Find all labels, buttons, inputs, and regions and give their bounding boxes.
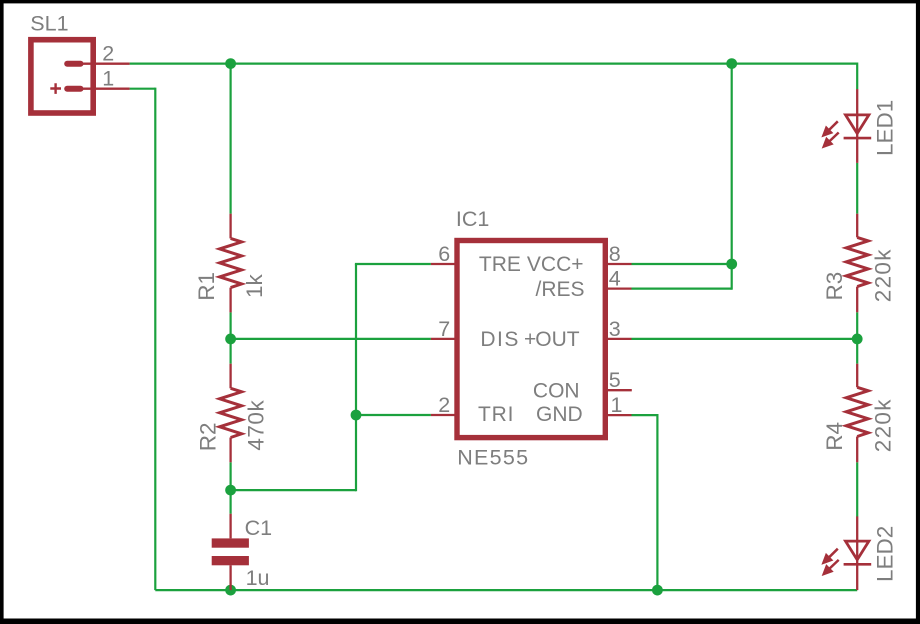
svg-text:NE555: NE555 xyxy=(457,445,529,469)
junction R2 C1 node xyxy=(225,485,236,496)
capacitor C1 leads xyxy=(229,514,231,590)
wire left rail down xyxy=(154,88,156,590)
svg-text:LED2: LED2 xyxy=(872,526,897,582)
svg-text:SL1: SL1 xyxy=(30,11,68,35)
IC1 pin 7 DIS stub xyxy=(431,338,456,340)
svg-text:2: 2 xyxy=(102,41,114,65)
capacitor C1 xyxy=(212,538,249,565)
svg-text:C1: C1 xyxy=(245,516,272,540)
IC1 pin 8 VCC stub xyxy=(606,263,632,265)
svg-text:6: 6 xyxy=(438,242,450,266)
connector SL1 body xyxy=(31,40,93,113)
IC1 pin 2 TRI stub xyxy=(431,414,456,416)
wire VCC pin8 net xyxy=(632,263,732,265)
wire SL1 pin1 to left rail xyxy=(130,88,156,90)
svg-text:OUT: OUT xyxy=(535,328,580,351)
wire right drop to LED1 xyxy=(856,63,858,90)
resistor R1 xyxy=(220,214,242,313)
svg-text:/RES: /RES xyxy=(535,278,584,301)
wire RES pin4 net xyxy=(632,288,732,290)
LED1 xyxy=(844,89,872,163)
wire DIS net xyxy=(231,338,431,340)
LED2 xyxy=(844,516,872,564)
wire GND pin1 net xyxy=(632,414,658,416)
LED1 emission arrows xyxy=(822,121,838,147)
svg-text:R3: R3 xyxy=(822,272,847,301)
op-amp IC1 box (NE555) xyxy=(457,241,605,438)
resistor R2 xyxy=(220,364,242,463)
wire VCC to R1 xyxy=(230,64,232,214)
svg-text:4: 4 xyxy=(609,267,621,291)
svg-text:1: 1 xyxy=(102,66,114,90)
svg-text:CON: CON xyxy=(533,379,580,402)
svg-text:7: 7 xyxy=(438,317,450,341)
junction pin8 pin4 xyxy=(726,259,737,270)
resistor R3 xyxy=(846,214,868,313)
wire TRE riser vertical xyxy=(355,264,357,491)
junction TRI riser xyxy=(351,410,362,421)
svg-text:1k: 1k xyxy=(242,273,267,298)
svg-text:470k: 470k xyxy=(244,400,269,451)
IC1 pin 4 RES stub xyxy=(606,287,632,289)
junction C1 bottom rail xyxy=(225,585,236,596)
wire R3 to junction xyxy=(856,312,858,339)
wire TRI to riser xyxy=(356,414,431,416)
junction OUT R3 R4 xyxy=(852,334,863,345)
svg-text:LED1: LED1 xyxy=(872,100,897,156)
connector SL1 pad pin2 xyxy=(67,61,80,67)
wire riser to TRE pin xyxy=(355,263,431,265)
IC1 pin 5 CON stub xyxy=(606,389,632,391)
wire GND drop xyxy=(656,414,658,590)
wire node across to TRE riser xyxy=(231,489,356,491)
svg-text:8: 8 xyxy=(609,242,621,266)
wire R2 to node junction xyxy=(230,462,232,490)
svg-text:1u: 1u xyxy=(246,566,270,590)
svg-text:R2: R2 xyxy=(195,422,220,451)
wire R1 to DIS junction xyxy=(230,312,232,339)
svg-text:220k: 220k xyxy=(871,398,896,452)
junction top rail R1 xyxy=(225,58,236,69)
svg-text:VCC+: VCC+ xyxy=(527,253,584,276)
svg-text:GND: GND xyxy=(536,403,583,426)
svg-text:R4: R4 xyxy=(822,422,847,451)
LED2 emission arrows xyxy=(822,549,838,575)
svg-text:3: 3 xyxy=(609,317,621,341)
wire bottom rail GND xyxy=(155,589,857,591)
wire pin8 riser to top rail xyxy=(731,64,733,264)
wire junction to C1 xyxy=(230,490,232,514)
junction R1 R2 DIS xyxy=(225,334,236,345)
svg-text:1: 1 xyxy=(611,393,623,417)
svg-text:220k: 220k xyxy=(871,248,896,302)
svg-text:R1: R1 xyxy=(194,272,219,301)
svg-text:TRI: TRI xyxy=(478,403,514,426)
wire junction to R4 xyxy=(856,339,858,364)
IC1 pin 1 GND stub xyxy=(606,414,632,416)
IC1 pin 3 OUT stub xyxy=(606,338,632,340)
wire LED1 to R3 xyxy=(856,163,858,214)
junction top rail pin8 riser xyxy=(726,58,737,69)
connector SL1 plus mark xyxy=(50,83,61,94)
connector SL1 pin2 lead xyxy=(80,63,130,65)
junction GND drop rail xyxy=(652,585,663,596)
svg-text:2: 2 xyxy=(438,393,450,417)
connector SL1 pin1 lead xyxy=(80,88,130,90)
wire DIS junction to R2 xyxy=(230,339,232,364)
svg-text:IC1: IC1 xyxy=(456,207,489,231)
wire pin4 riser xyxy=(731,264,733,290)
svg-text:DIS: DIS xyxy=(480,328,520,351)
svg-text:TRE: TRE xyxy=(479,253,521,276)
wire top rail VCC xyxy=(130,62,858,64)
connector SL1 pad pin1 xyxy=(67,86,80,92)
resistor R4 xyxy=(846,364,868,463)
wire LED2 bottom stub rail end xyxy=(856,564,858,590)
IC1 pin 6 TRE stub xyxy=(431,263,456,265)
svg-text:5: 5 xyxy=(609,368,621,392)
wire OUT pin3 net xyxy=(632,338,858,340)
wire R4 to LED2 xyxy=(856,462,858,516)
